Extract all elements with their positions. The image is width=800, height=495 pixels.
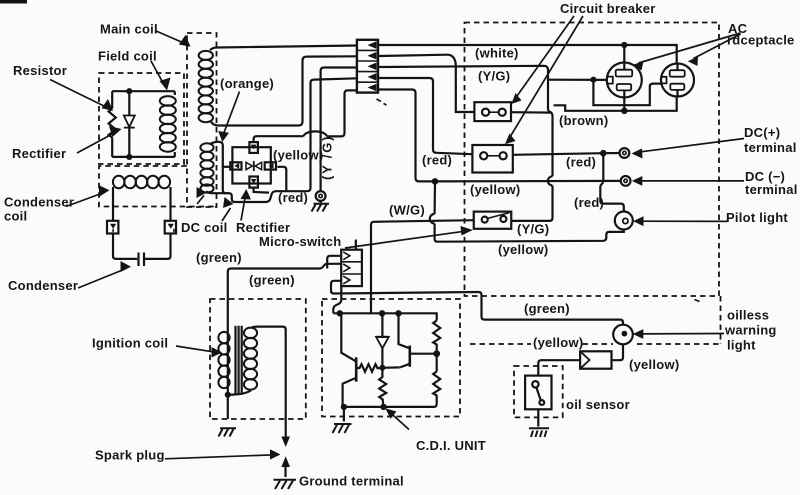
svg-text:Pilot light: Pilot light [726,210,788,225]
svg-text:light: light [727,338,756,353]
svg-text:Ground terminal: Ground terminal [299,474,404,489]
svg-text:(Y /G): (Y /G) [320,135,335,180]
svg-text:(green): (green) [249,273,295,288]
svg-text:(yellow): (yellow) [273,148,323,163]
svg-text:C.D.I. UNIT: C.D.I. UNIT [416,438,486,453]
svg-text:Spark plug: Spark plug [95,448,165,463]
svg-text:(red): (red) [422,153,452,168]
svg-text:Rectifier: Rectifier [12,146,66,161]
svg-text:rdceptacle: rdceptacle [727,33,795,48]
svg-text:(yellow): (yellow) [498,242,548,257]
svg-text:Condenser: Condenser [8,278,78,293]
svg-text:oilless: oilless [727,308,769,323]
svg-text:Micro-switch: Micro-switch [259,234,341,249]
svg-text:coil: coil [4,209,27,224]
svg-text:(white): (white) [475,46,519,61]
svg-text:Ignition coil: Ignition coil [92,336,168,351]
svg-text:(Y/G): (Y/G) [478,69,510,84]
svg-text:(yellow): (yellow) [470,182,520,197]
svg-text:(W/G): (W/G) [389,203,425,218]
svg-text:(red): (red) [566,155,596,170]
svg-text:Rectifier: Rectifier [236,220,290,235]
svg-text:(red): (red) [574,195,604,210]
svg-text:Resistor: Resistor [13,63,67,78]
svg-text:warning: warning [724,323,777,338]
svg-text:DC(+): DC(+) [744,125,780,140]
svg-text:(yellow): (yellow) [533,335,583,350]
svg-text:Condenser: Condenser [4,195,74,210]
svg-text:Field coil: Field coil [98,49,157,64]
svg-text:terminal: terminal [744,140,797,155]
svg-text:oil sensor: oil sensor [566,397,630,412]
svg-text:terminal: terminal [745,182,798,197]
svg-text:(green): (green) [524,301,570,316]
svg-text:(orange): (orange) [220,76,274,91]
svg-text:(green): (green) [196,250,242,265]
svg-text:Circuit breaker: Circuit breaker [560,1,656,16]
svg-text:Main coil: Main coil [100,22,158,37]
svg-text:(brown): (brown) [559,113,608,128]
svg-text:DC coil: DC coil [181,220,228,235]
svg-text:(red): (red) [278,190,308,205]
svg-text:(Y/G): (Y/G) [517,222,549,237]
svg-text:(yellow): (yellow) [629,357,679,372]
